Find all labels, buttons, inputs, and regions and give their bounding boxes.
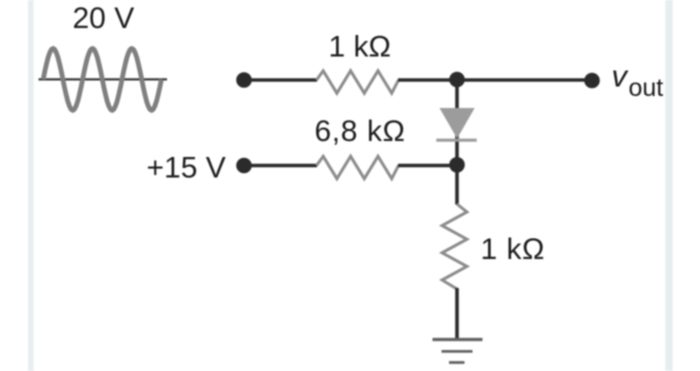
- svg-text:1 kΩ: 1 kΩ: [481, 233, 545, 266]
- svg-text:+15 V: +15 V: [147, 152, 226, 185]
- svg-text:20 V: 20 V: [73, 2, 135, 35]
- diode D1 cathode bar: [436, 139, 476, 142]
- wire resistor R3 to ground: [455, 288, 459, 339]
- resistor R3 1 kOhm (vertical): [442, 204, 467, 289]
- wire resistor R2 to node E: [398, 164, 457, 168]
- wire node E down to resistor R3: [455, 165, 459, 205]
- resistor R2 6.8 kOhm (middle horizontal): [317, 156, 399, 178]
- node E junction dot: [449, 157, 465, 173]
- svg-text:6,8 kΩ: 6,8 kΩ: [315, 115, 406, 148]
- wire node A to resistor R1: [244, 78, 317, 82]
- node B junction dot: [449, 72, 465, 88]
- source V1 sine wave: [43, 48, 161, 110]
- wire node D to resistor R2: [244, 164, 317, 168]
- resistor R1 1 kOhm (top horizontal): [317, 71, 399, 93]
- diode D1 anode triangle: [440, 108, 475, 139]
- output terminal dot: [584, 73, 600, 89]
- ground bar 1: [433, 338, 483, 341]
- ground bar 3: [449, 361, 465, 364]
- wire node B to output terminal: [457, 78, 592, 82]
- svg-text:v: v: [612, 59, 629, 94]
- svg-text:1 kΩ: 1 kΩ: [329, 30, 391, 63]
- svg-text:out: out: [629, 74, 664, 102]
- node A terminal dot (top-left input): [236, 72, 252, 88]
- wire node B down to diode D1: [455, 80, 459, 166]
- ground bar 2: [442, 350, 473, 353]
- source V1 axis line: [39, 78, 168, 80]
- node D terminal dot (+15 V input): [236, 158, 252, 174]
- wire resistor R1 to node B: [398, 78, 457, 82]
